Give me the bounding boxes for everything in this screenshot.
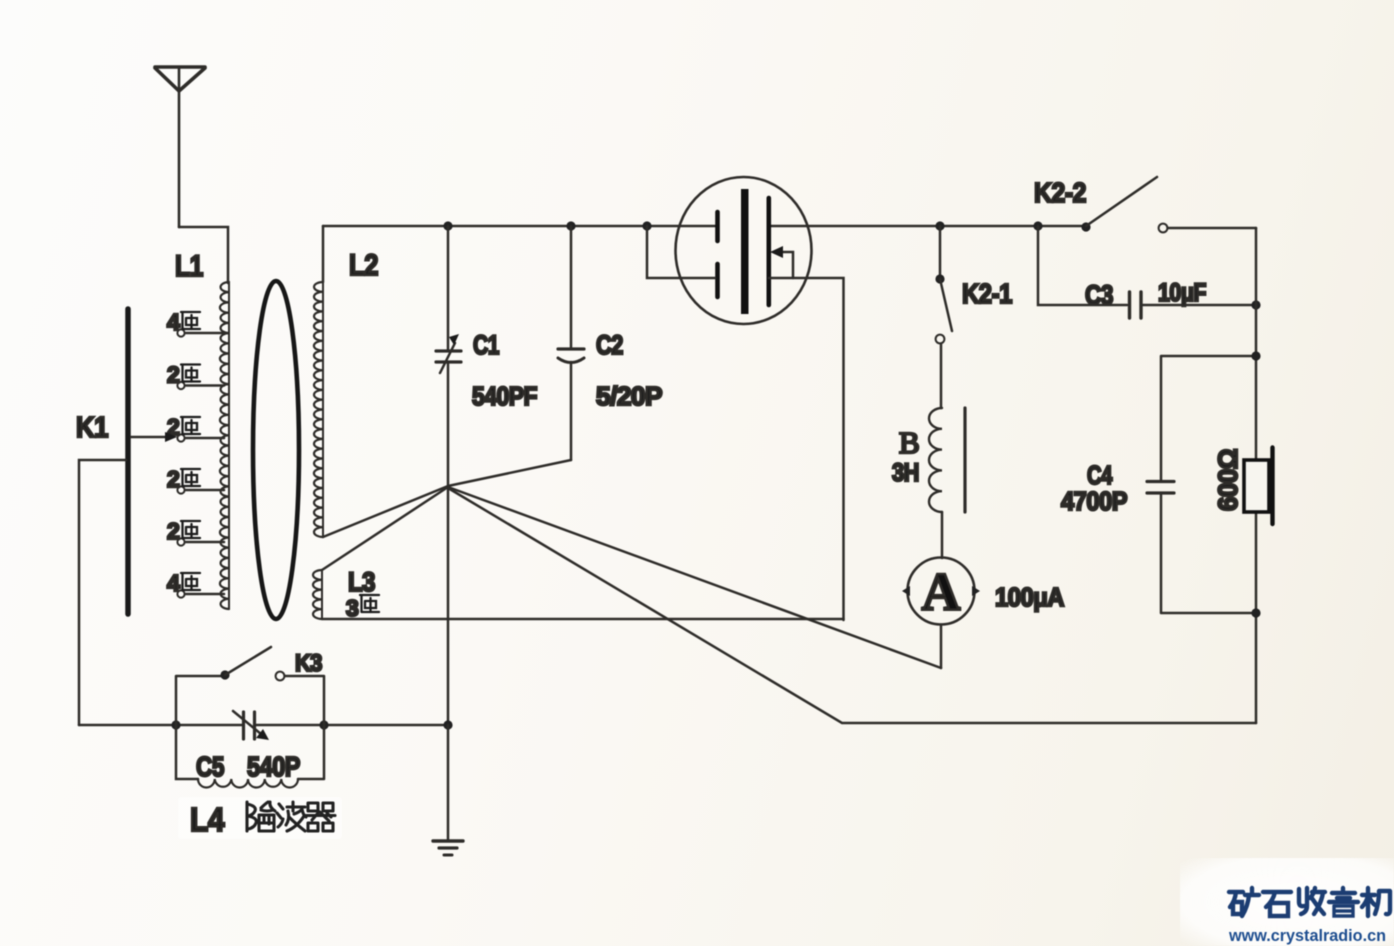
watermark logo bbox=[1229, 888, 1390, 916]
antenna bbox=[155, 67, 205, 227]
svg-text:3H: 3H bbox=[892, 459, 919, 487]
svg-text:L2: L2 bbox=[349, 249, 378, 282]
ferrite rod core bbox=[253, 281, 299, 619]
switch K1 selector bar bbox=[125, 309, 131, 614]
node C3 branch bbox=[1033, 221, 1042, 230]
node trap left bbox=[171, 720, 180, 729]
svg-text:5/20P: 5/20P bbox=[596, 381, 662, 411]
svg-text:B: B bbox=[899, 425, 920, 460]
svg-text:www.crystalradio.cn: www.crystalradio.cn bbox=[1228, 926, 1386, 945]
node C2 top bbox=[566, 221, 575, 230]
wire K1 to bottom rail bbox=[79, 460, 126, 725]
inductor B (choke 3H) bbox=[929, 408, 965, 512]
svg-text:C1: C1 bbox=[473, 330, 499, 360]
node C4 bottom bbox=[1251, 608, 1260, 617]
svg-text:100μA: 100μA bbox=[995, 582, 1065, 612]
label wave trap (Chinese) bbox=[247, 802, 335, 831]
wire drain loop bbox=[769, 278, 844, 620]
svg-text:2: 2 bbox=[167, 362, 179, 388]
node trap right bbox=[319, 720, 328, 729]
svg-text:600Ω: 600Ω bbox=[1213, 449, 1243, 511]
svg-text:C3: C3 bbox=[1085, 280, 1113, 310]
svg-text:4: 4 bbox=[167, 570, 180, 596]
K1 wiper arrow bbox=[131, 432, 177, 442]
node gate2 branch bbox=[642, 221, 651, 230]
node gang common bbox=[447, 486, 450, 725]
svg-text:K2-2: K2-2 bbox=[1034, 177, 1086, 208]
capacitor C4 (4700P) bbox=[1147, 356, 1256, 613]
svg-text:C2: C2 bbox=[596, 330, 623, 360]
svg-text:K3: K3 bbox=[295, 650, 322, 677]
svg-text:4700P: 4700P bbox=[1061, 486, 1127, 516]
ground bbox=[433, 725, 463, 855]
node C1 top bbox=[443, 221, 452, 230]
svg-text:A: A bbox=[922, 562, 961, 622]
svg-text:4: 4 bbox=[167, 309, 180, 335]
switch K2-2 bbox=[1081, 177, 1256, 232]
svg-text:K1: K1 bbox=[76, 412, 108, 444]
inductor L2 bbox=[314, 282, 323, 537]
svg-text:L3: L3 bbox=[348, 567, 375, 597]
svg-text:C5: C5 bbox=[196, 751, 224, 782]
svg-text:540P: 540P bbox=[247, 751, 300, 782]
svg-text:K2-1: K2-1 bbox=[962, 278, 1012, 309]
L1 tap 5 (2 turns) bbox=[167, 518, 224, 546]
wire choke to meter bbox=[941, 512, 944, 558]
node C4 top bbox=[1251, 351, 1260, 360]
svg-text:2: 2 bbox=[167, 466, 179, 492]
wire gang to meter bottom bbox=[448, 487, 941, 668]
wire gate2 bbox=[647, 226, 715, 278]
node C3 right bbox=[1251, 300, 1260, 309]
transistor U1 (dual-gate FET) bbox=[676, 177, 812, 324]
L1 tap 1 (4 turns) bbox=[167, 309, 224, 337]
switch K2-1 bbox=[935, 226, 952, 408]
wire gang to L3 top bbox=[322, 487, 448, 570]
wire antenna to L1 bbox=[179, 227, 228, 283]
watermark background patch bbox=[1180, 858, 1394, 946]
capacitor C1 (variable) bbox=[436, 226, 461, 486]
wire meter bottom bbox=[940, 625, 943, 669]
capacitor C5 (variable 540P) bbox=[233, 711, 269, 740]
L1 tap 6 (4 turns) bbox=[167, 570, 224, 598]
speaker (600 ohm) bbox=[1244, 448, 1273, 525]
wire top rail left bbox=[323, 225, 715, 228]
wire source arrow bbox=[770, 246, 793, 278]
wire top rail right bbox=[769, 225, 1086, 228]
wire bottom rail bbox=[79, 724, 448, 727]
capacitor C2 (trimmer 5/20P) bbox=[558, 226, 584, 460]
wire right rail bbox=[1255, 228, 1258, 723]
L1 tap 4 (2 turns) bbox=[167, 466, 224, 494]
svg-text:2: 2 bbox=[167, 518, 179, 544]
L1 tap 3 (2 turns) bbox=[167, 414, 224, 442]
value 3 turns bbox=[346, 595, 379, 621]
inductor L3 (3 turns) bbox=[313, 570, 322, 619]
wire C2 to gang node bbox=[448, 460, 571, 486]
wire gang to bottom right rail bbox=[448, 488, 1256, 723]
svg-text:10μF: 10μF bbox=[1158, 279, 1206, 307]
capacitor C3 (10uF) bbox=[1038, 226, 1256, 318]
wire L2 top to rail bbox=[322, 226, 325, 282]
svg-text:L4: L4 bbox=[190, 801, 225, 838]
inductor L1 bbox=[220, 282, 229, 609]
L1 tap 2 (2 turns) bbox=[167, 362, 224, 390]
inductor L4 (wave trap) bbox=[176, 725, 324, 788]
svg-text:540PF: 540PF bbox=[472, 381, 537, 411]
node ground branch bbox=[443, 720, 452, 729]
meter A (100uA) bbox=[902, 558, 980, 625]
svg-text:3: 3 bbox=[346, 595, 358, 621]
svg-text:L1: L1 bbox=[175, 250, 203, 283]
switch K3 bbox=[176, 647, 324, 725]
wire gang to L2 bottom bbox=[323, 486, 448, 537]
wire L3 bottom bbox=[322, 618, 844, 621]
node K2-1 branch bbox=[935, 221, 944, 230]
